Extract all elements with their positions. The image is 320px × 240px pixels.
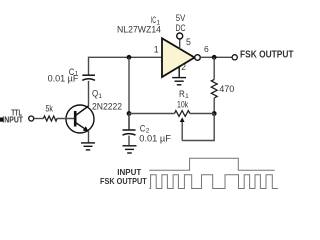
svg-text:2N2222: 2N2222: [92, 101, 122, 111]
wire C2 junction to plate: [128, 114, 130, 130]
wire Q1 emitter to ground: [88, 131, 90, 143]
waveform INPUT trace: [149, 158, 274, 170]
svg-text:1: 1: [154, 44, 159, 54]
transistor Q1: [66, 105, 94, 133]
resistor R1: [175, 111, 190, 117]
label IC1: [151, 15, 161, 26]
svg-text:0.01 µF: 0.01 µF: [139, 134, 171, 144]
waveform FSK OUTPUT trace: [149, 175, 278, 189]
label C2: [140, 124, 150, 135]
label R1: [179, 89, 189, 100]
wire wiper return to junction: [182, 114, 214, 141]
inverter bubble pin 6: [195, 55, 201, 61]
svg-text:FSK OUTPUT: FSK OUTPUT: [240, 50, 294, 61]
wire vertical branch x129 down to R1 row: [128, 57, 130, 129]
node junction C2 / R1 row: [127, 111, 132, 116]
wire TTL terminal to 5k: [34, 118, 44, 120]
stray mark left edge: [0, 118, 3, 122]
wire C2 to ground: [128, 136, 130, 146]
ground below U1: [172, 78, 186, 85]
svg-text:FSK OUTPUT: FSK OUTPUT: [100, 176, 147, 186]
terminal 5V DC: [177, 33, 183, 39]
ground below Q1: [81, 143, 95, 150]
wire C1 bottom to Q1 collector: [88, 81, 90, 107]
svg-text:5V: 5V: [176, 13, 186, 23]
wire 5k to Q1 base: [57, 118, 74, 120]
svg-text:5: 5: [186, 37, 191, 47]
terminal FSK output: [232, 55, 237, 60]
node junction at x129 top wire: [127, 55, 132, 60]
svg-text:0.01 µF: 0.01 µF: [48, 74, 79, 84]
label TTL INPUT: [2, 109, 23, 125]
node junction output: [212, 55, 217, 60]
resistor 470: [211, 80, 217, 98]
pin 2 stub: [178, 67, 180, 77]
svg-text:6: 6: [204, 44, 209, 54]
node junction R1 right: [212, 111, 217, 116]
emitter arrow of Q1: [83, 126, 89, 132]
svg-text:1: 1: [98, 93, 102, 100]
capacitor C2: [123, 130, 136, 135]
ground below C2: [123, 146, 137, 153]
label Q1: [92, 89, 102, 101]
pin 5 stub: [179, 39, 181, 49]
wire R1 row right segment: [190, 113, 214, 115]
wire R1 row left segment: [129, 113, 175, 115]
svg-text:Q: Q: [92, 89, 98, 99]
svg-text:2: 2: [181, 62, 186, 72]
resistor 5k: [43, 116, 57, 121]
op-amp U1 inverter triangle: [162, 38, 195, 77]
wire top from C1 corner to pin 1 of U1: [89, 57, 163, 75]
capacitor C1: [82, 75, 95, 80]
svg-text:INPUT: INPUT: [2, 116, 23, 125]
wire pin 6 to FSK output terminal: [200, 56, 232, 58]
wire output junction down to 470: [213, 57, 215, 79]
wire 470 to R1 junction: [213, 98, 215, 114]
label C1: [69, 67, 79, 78]
svg-text:470: 470: [219, 84, 234, 94]
svg-text:10k: 10k: [177, 99, 188, 109]
svg-text:5k: 5k: [46, 103, 54, 113]
potentiometer wiper arrow: [181, 120, 183, 141]
terminal TTL input: [29, 116, 34, 121]
svg-text:NL27WZ14: NL27WZ14: [117, 25, 161, 35]
svg-text:DC: DC: [176, 23, 186, 33]
